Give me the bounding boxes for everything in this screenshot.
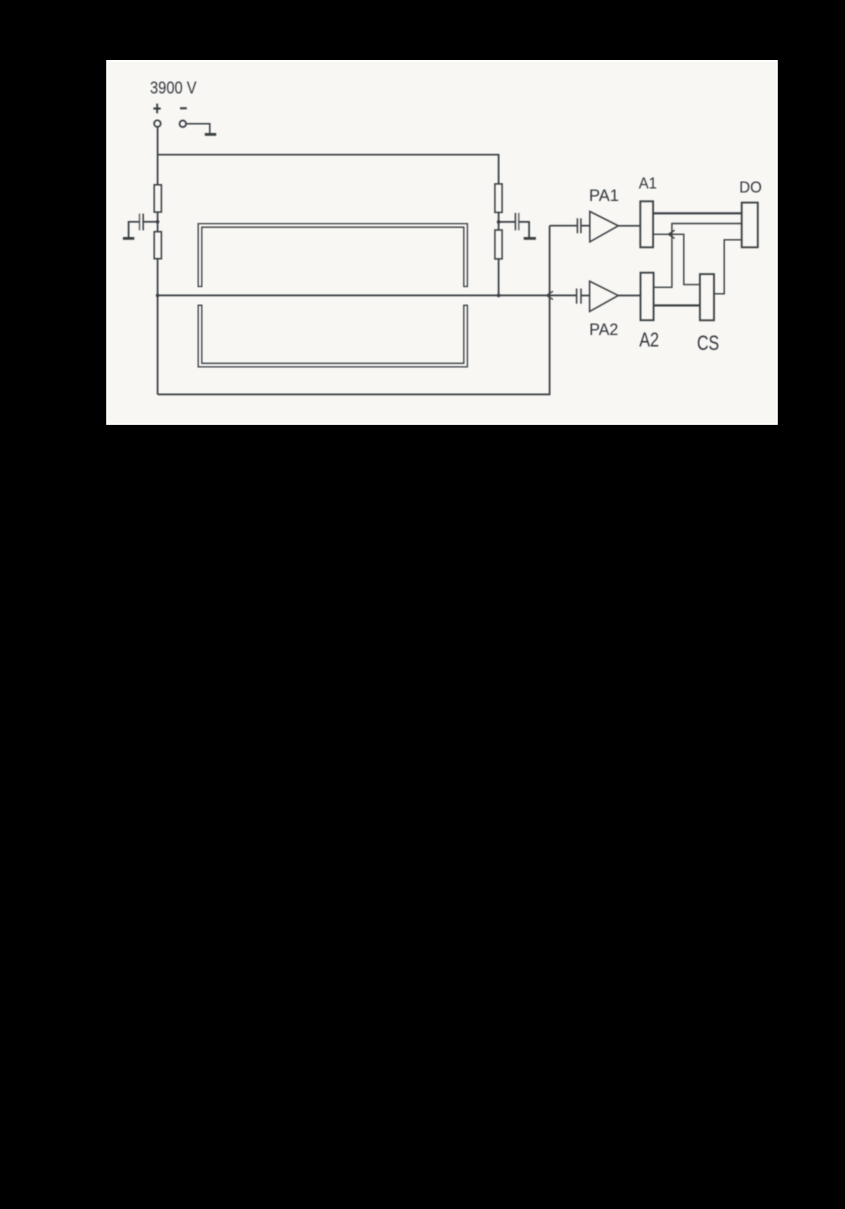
node: middle rail left junction [156,294,160,298]
node: right divider tap [497,220,501,224]
wire PA1 to A1 [618,225,640,227]
svg-text:3900 V: 3900 V [150,77,197,97]
capacitor C1 [140,214,144,231]
plus terminal circle [154,120,161,127]
wire tap to capacitor C2 [499,221,516,223]
node: middle rail right junction [497,294,501,298]
arrow on A1 lower wire [668,230,674,238]
ground G3 [524,237,536,240]
plus terminal label [153,104,160,114]
wire PA1 input [550,225,578,227]
preamp PA1 [590,211,619,242]
wire CS to DO [714,240,742,294]
wire C1 to ground [129,222,140,237]
wire R3 to R4 [498,212,500,230]
wire C2 to ground [519,222,529,237]
minus terminal circle [180,121,187,128]
capacitor C2 [515,213,518,230]
lower collector electrode [198,305,467,367]
preamp PA2 [590,281,619,311]
wire bottom rail [158,226,550,395]
ground G1 [205,133,216,136]
wire R1 to R2 [157,212,159,232]
wire minus terminal to ground [186,124,209,133]
wire C3 to PA1 [581,225,590,227]
schematic panel background [107,61,777,424]
svg-text:PA2: PA2 [589,320,618,339]
wire R4 to middle rail [498,259,500,296]
minus terminal label [180,107,187,109]
capacitor C4 [577,289,581,304]
resistor R2 [154,232,161,259]
wire middle rail [158,294,577,296]
amplifier block A2 [641,273,654,321]
ground G2 [123,237,134,240]
svg-text:CS: CS [697,331,719,355]
svg-text:PA1: PA1 [589,186,619,205]
wire C4 to PA2 [581,295,590,297]
wire tap to capacitor C1 [143,221,157,223]
svg-text:A1: A1 [639,175,657,192]
resistor R1 [154,185,161,212]
wire top rail [158,155,499,184]
resistor R4 [495,230,502,259]
wire PA2 to A2 [618,295,640,297]
arrow on middle rail [547,291,553,299]
svg-text:DO: DO [739,180,762,197]
resistor R3 [495,184,502,213]
wire left rail down [157,295,159,394]
wire A2 to CS [654,304,700,306]
amplifier block A1 [640,201,653,247]
upper deflection electrode [198,224,467,287]
wire DO feedback to A2 [654,224,742,288]
svg-text:A2: A2 [639,329,659,352]
capacitor C3 [577,218,581,233]
coincidence block CS [700,274,714,320]
wire R2 to middle rail [157,259,159,296]
node: left divider tap [156,220,160,224]
output block DO [742,203,758,248]
wire plus terminal down to R1 [157,127,159,185]
wire A1 to DO [653,212,742,214]
wire A1 lower output to CS [653,234,700,284]
